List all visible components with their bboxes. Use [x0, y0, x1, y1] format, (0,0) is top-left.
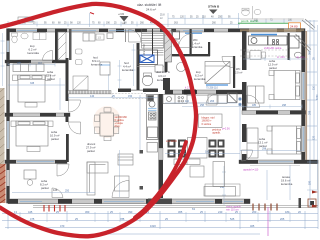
svg-text:min 110 cm: min 110 cm [226, 209, 239, 212]
svg-text:drvo: drvo [115, 125, 120, 128]
entry door rect with diagonal [73, 76, 88, 90]
bedroomA door arc [247, 95, 260, 108]
window sill right kitchen [251, 34, 277, 36]
svg-text:+2.80: +2.80 [118, 13, 125, 16]
living dim vline [119, 150, 121, 197]
svg-text:keramika: keramika [194, 77, 206, 81]
svg-text:110: 110 [38, 62, 42, 65]
washing machine circle [177, 63, 186, 72]
left exterior wall [7, 29, 10, 204]
svg-text:ugradb.: ugradb. [212, 131, 221, 135]
corridor hatched wall [68, 91, 111, 94]
landing line [137, 66, 164, 68]
shaft boxes with X [239, 98, 242, 106]
svg-text:keramika: keramika [157, 78, 169, 82]
wardrobe A [248, 86, 265, 103]
svg-text:180: 180 [285, 210, 290, 214]
hall-left vertical wall [66, 58, 69, 101]
counter mid lines [187, 96, 208, 104]
bedroomB door arc [242, 150, 253, 161]
entry cabinet dark [173, 31, 180, 39]
left hatched neighbour strip [0, 88, 6, 203]
svg-text:6 stolica: 6 stolica [202, 122, 212, 126]
svg-text:465: 465 [250, 224, 255, 228]
bath window blue [206, 84, 228, 86]
bedroom2 door arc [69, 122, 81, 134]
svg-text:445: 445 [28, 210, 33, 214]
svg-text:25.8: 25.8 [160, 15, 165, 17]
svg-text:keramika: keramika [91, 63, 103, 67]
entry closet boxes [83, 33, 113, 41]
kitchen top-right partition [288, 33, 290, 60]
nightstands bed1 [13, 75, 51, 81]
dishwasher blue stripes [148, 108, 157, 110]
nightstands bed B [267, 126, 272, 154]
terrace step rect mid-bottom [205, 184, 240, 196]
room3 door arc [57, 164, 69, 176]
small table far right [250, 51, 261, 60]
oven box kitchen end [147, 143, 158, 153]
kitchen counter left apt [147, 95, 159, 140]
svg-text:298: 298 [309, 110, 312, 115]
hall dim vlines [109, 60, 122, 90]
red loop overlapping tail stroke [135, 142, 186, 218]
upper room shower diagonal (cut) [302, 19, 315, 30]
toilet far right [294, 52, 301, 58]
bench 2 [27, 147, 40, 152]
svg-text:24.6 m²: 24.6 m² [146, 8, 156, 12]
top wall windows [17, 29, 203, 31]
magenta vertical line bottom right [267, 207, 269, 236]
top wall dark segments [8, 29, 305, 32]
stairwell right wall [165, 29, 172, 62]
dim line above right apt wall [182, 105, 302, 109]
terrace door arc bottom [52, 188, 63, 198]
soba1 label [46, 70, 56, 81]
left outside dim line [1, 33, 5, 86]
balcony railing red ticks left [44, 205, 65, 212]
nightstands bed A [269, 71, 274, 100]
kitchen top right counters [249, 36, 288, 45]
svg-text:260: 260 [252, 210, 257, 214]
svg-text:keramika: keramika [281, 182, 293, 186]
right-mid horizontal wall (terrace top) [239, 160, 318, 164]
svg-text:345: 345 [30, 82, 35, 85]
desk [24, 170, 36, 179]
top dimension numbers [12, 15, 293, 25]
bathroom door arc [43, 51, 53, 61]
svg-text:STAN B: STAN B [208, 5, 220, 9]
magenta bottom annotation [226, 206, 241, 212]
svg-text:470: 470 [60, 224, 65, 228]
sofa L right apt [204, 162, 236, 197]
svg-text:ulaz. stubište i lift: ulaz. stubište i lift [137, 3, 161, 7]
svg-text:390: 390 [128, 210, 133, 214]
dining area warm tint [93, 106, 121, 138]
armchair [118, 154, 133, 165]
level triangle right [209, 10, 218, 15]
living door arc right apt [206, 94, 217, 105]
dining table [100, 113, 114, 136]
svg-text:240: 240 [218, 210, 223, 214]
bed A [274, 71, 300, 100]
svg-text:263: 263 [210, 100, 215, 103]
svg-text:126: 126 [53, 188, 58, 192]
svg-text:keramika: keramika [191, 45, 203, 49]
bottom exterior wall band [8, 199, 250, 204]
svg-text:150: 150 [128, 95, 133, 98]
wc door arc [222, 57, 233, 68]
svg-text:140: 140 [90, 95, 95, 98]
red arrows right edge [312, 191, 318, 208]
svg-text:298: 298 [262, 148, 267, 151]
bathtub right apt [205, 62, 230, 84]
stairwell left wall [137, 43, 140, 90]
chairs [95, 108, 119, 141]
right wall outer tan strip [306, 31, 308, 161]
column detail box bottom-right [308, 199, 316, 207]
wardrobe B [247, 128, 258, 158]
coffee table right apt [190, 166, 204, 177]
top dimension band [8, 13, 318, 28]
lift shaft [138, 50, 158, 65]
dashed beam lines [240, 50, 287, 56]
ulaz stan A label [156, 70, 170, 82]
washbasin [21, 33, 28, 39]
bathroom interior dim line [8, 63, 55, 67]
soba2 label [50, 130, 60, 141]
svg-text:keramika: keramika [122, 68, 134, 72]
right apt horizontal wall [242, 111, 306, 115]
svg-text:parket: parket [51, 137, 59, 141]
hall shelf box [96, 34, 104, 40]
bed 1 [18, 75, 45, 102]
svg-text:stol 90/90: stol 90/90 [166, 140, 177, 143]
terrace railing brown-red ticks right [253, 204, 277, 211]
top wall tan segment right [240, 29, 304, 32]
wc niche toilet and bidet [76, 49, 83, 65]
svg-text:75 258 110: 75 258 110 [206, 87, 218, 90]
dnevni label [86, 142, 96, 153]
corner shower diagonal [294, 34, 312, 51]
svg-text:160: 160 [205, 151, 210, 154]
bedroom1 door arc [69, 100, 81, 112]
svg-text:180: 180 [309, 180, 312, 185]
dim line above bedroom A [243, 57, 308, 61]
level triangle mid [120, 16, 129, 22]
toilet above top-right (cut room) [240, 6, 304, 19]
svg-text:360: 360 [85, 210, 90, 214]
svg-text:površ. stamb.: površ. stamb. [241, 19, 259, 23]
terrace slab edge lines [33, 160, 318, 207]
stairhall dim vline [132, 44, 136, 86]
svg-text:110: 110 [185, 100, 190, 103]
svg-text:parket: parket [269, 66, 277, 70]
svg-text:110: 110 [313, 85, 316, 90]
right apt entry door arc [179, 34, 193, 48]
svg-text:p=2.56: p=2.56 [222, 128, 230, 131]
svg-text:1620: 1620 [150, 224, 156, 228]
hall toilet [142, 73, 152, 86]
lift car blue [140, 55, 154, 63]
window tag box top-left [18, 17, 33, 22]
svg-text:st. 204: st. 204 [277, 56, 285, 59]
svg-text:365: 365 [178, 210, 183, 214]
stair handrail [152, 29, 154, 55]
left lower window wall (room3 top) [5, 160, 67, 164]
entry door arc left apt [129, 30, 142, 43]
mid-left horizontal wall between bedrooms [5, 113, 70, 117]
svg-text:parket: parket [41, 186, 49, 190]
svg-text:205: 205 [280, 217, 285, 221]
svg-text:366: 366 [309, 50, 312, 55]
svg-text:2x60+80 radna: 2x60+80 radna [264, 46, 282, 50]
kitchen counter right apt [163, 95, 227, 104]
dining chairs dark left group [168, 140, 187, 158]
long wardrobe [13, 64, 44, 72]
bed B [272, 126, 301, 154]
living/hall wall mid [118, 89, 131, 93]
fridge right apt [228, 93, 238, 103]
bathroom right wall + shaft [55, 30, 58, 61]
kitchen upper cabinets dashed [112, 94, 146, 99]
svg-text:ug. orm.: ug. orm. [296, 56, 305, 59]
entry door leaf [125, 29, 127, 42]
dining table 2 white [188, 138, 208, 159]
WC label [191, 38, 203, 49]
terrace dim vline mid [222, 166, 226, 205]
tv bench right apt [174, 159, 200, 165]
pillar bar near terrace [299, 198, 302, 208]
hall washbasin [155, 65, 163, 72]
svg-text:525: 525 [230, 217, 235, 221]
sofa left apt [87, 162, 108, 195]
svg-text:250: 250 [65, 190, 70, 193]
wall between left and right apt (living) [159, 94, 164, 148]
top exterior wall band [8, 29, 305, 32]
balcony door arc living [112, 181, 129, 198]
hod2 label [122, 61, 134, 72]
bench 1 [25, 103, 37, 108]
chair [27, 180, 33, 186]
bathroom bottom wall [5, 60, 68, 63]
dining table 1 with red text [199, 114, 223, 128]
svg-text:ograda h=110: ograda h=110 [243, 169, 259, 172]
shaft right wall [69, 29, 72, 60]
svg-text:475: 475 [30, 217, 35, 221]
svg-text:keramika: keramika [28, 51, 40, 55]
bed 2 [16, 121, 48, 146]
soba3 label [40, 179, 49, 190]
coffee table [115, 176, 130, 191]
green line [238, 22, 298, 24]
kup label [28, 44, 40, 55]
svg-text:185: 185 [252, 104, 257, 107]
svg-text:785: 785 [120, 217, 125, 221]
right exterior wall [302, 31, 306, 162]
svg-text:m²: m² [160, 17, 163, 20]
red note text dining [115, 116, 128, 128]
central vertical wall between apartments [242, 31, 247, 70]
dining chairs dark right group [209, 140, 225, 158]
WC partition walls right apt entry [190, 29, 192, 56]
svg-text:16x17.5/28: 16x17.5/28 [142, 44, 144, 56]
stairs [142, 29, 164, 55]
wc fixture [12, 33, 18, 43]
svg-text:258: 258 [200, 104, 205, 107]
svg-text:24.80: 24.80 [290, 25, 298, 29]
svg-text:parket: parket [87, 149, 95, 153]
dim tick blobs [140, 150, 144, 154]
kup2 label [194, 70, 206, 81]
orange tag box with red text [289, 23, 301, 29]
svg-text:120: 120 [313, 135, 316, 140]
hall label [91, 56, 103, 67]
svg-text:WC: WC [236, 67, 240, 71]
red pen speck [90, 13, 94, 15]
washer dryer [33, 33, 46, 40]
tall wardrobe in hall [100, 62, 110, 75]
svg-text:2.0 m²: 2.0 m² [235, 71, 242, 75]
svg-text:298: 298 [282, 104, 287, 107]
